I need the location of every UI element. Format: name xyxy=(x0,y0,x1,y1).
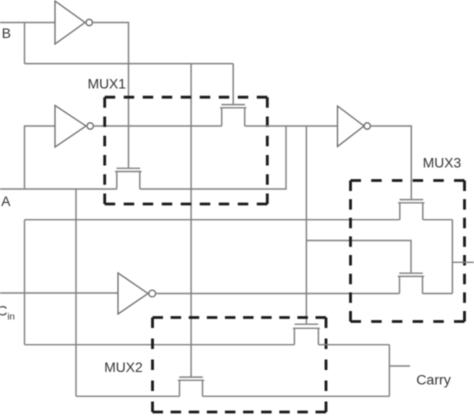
wire B to M3 gate xyxy=(190,64,192,378)
svg-text:MUX1: MUX1 xyxy=(88,77,126,92)
svg-text:A: A xyxy=(1,194,11,209)
wire M3 drain xyxy=(203,395,390,397)
transistor M5 xyxy=(398,200,424,220)
wire Cin upper row xyxy=(25,219,400,221)
wire Sum output xyxy=(452,261,474,263)
wire MUX1 lower output join xyxy=(140,126,286,189)
transistor M1 gate lead xyxy=(232,64,234,105)
wire Cin input xyxy=(0,292,118,294)
inverter U4 xyxy=(338,106,371,147)
svg-text:MUX2: MUX2 xyxy=(104,360,142,375)
transistor M3 xyxy=(178,377,204,396)
svg-text:B: B xyxy=(2,26,11,41)
wire Cin branch vertical xyxy=(24,220,26,345)
wire Cin lower row xyxy=(25,344,295,346)
transistor M6 xyxy=(398,273,424,293)
inverter U1 xyxy=(55,1,92,44)
transistor M4 xyxy=(293,324,320,345)
wire M4 drain xyxy=(318,344,389,346)
transistor M1 xyxy=(220,105,246,126)
wire U3 output Cinbar xyxy=(156,293,400,295)
inverter U3 xyxy=(118,273,156,314)
wire B input xyxy=(0,22,55,24)
wire U4 output Pbar xyxy=(370,126,411,200)
wire MUX2 output node xyxy=(388,345,390,397)
wire MUX1 upper output xyxy=(245,125,338,127)
wire M6 drain xyxy=(423,293,453,295)
wire P branch down xyxy=(305,126,307,324)
wire A branch down xyxy=(75,189,77,396)
wire B row xyxy=(25,63,234,65)
wire A to U2 input xyxy=(25,126,56,189)
wire P to M6 gate xyxy=(306,241,411,274)
svg-text:MUX3: MUX3 xyxy=(423,156,462,171)
wire M5 drain xyxy=(423,219,453,221)
transistor M2 xyxy=(115,168,141,189)
MUX3 dashed box xyxy=(351,181,465,322)
wire A input xyxy=(0,188,117,190)
wire U1 output Bbar xyxy=(92,23,128,169)
MUX2 dashed box xyxy=(153,318,327,413)
MUX1 dashed box xyxy=(105,97,268,204)
wire B branch down xyxy=(24,23,26,64)
wire U2 output Abar xyxy=(93,125,221,127)
wire A bottom row xyxy=(76,395,180,397)
svg-text:Cin: Cin xyxy=(0,303,15,323)
inverter U2 xyxy=(55,106,93,148)
wire MUX3 output node xyxy=(451,220,453,294)
svg-text:Carry: Carry xyxy=(416,373,452,389)
wire Carry output xyxy=(389,365,410,367)
